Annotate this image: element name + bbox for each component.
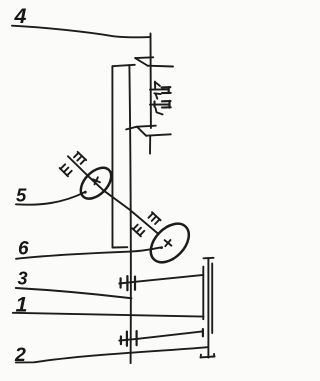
disc A center cross stroke 2 (95, 177, 98, 184)
frame column right edge merged with vertical shaft II (129, 65, 130, 363)
clutch comb E upper tooth 3 (81, 159, 86, 164)
cone pulley B1 diagonal (135, 58, 147, 65)
disc B center cross stroke 1 (165, 240, 172, 246)
gear tick A on shaft I (154, 82, 156, 90)
cone pulley B1 top line (135, 56, 153, 59)
gear tick on line 2 (153, 101, 155, 106)
clutch comb E upper tooth 2 (77, 156, 82, 161)
svg-text:3: 3 (18, 268, 28, 288)
lead screw top cap (204, 257, 214, 260)
svg-text:5: 5 (16, 185, 27, 206)
leader line 1 (13, 313, 204, 317)
lead screw bottom cap (201, 356, 215, 359)
bevel pair 1 bar b (126, 276, 128, 290)
lead screw bottom cap left serif (200, 355, 202, 358)
leader 6 end dot (160, 246, 163, 249)
svg-text:4: 4 (14, 4, 27, 28)
clutch comb F upper (disc B) spine (152, 212, 161, 220)
gear I-bar 1 bottom cap (162, 92, 171, 94)
leader 5 end dot (84, 191, 87, 194)
clutch comb F lower tooth 2 (137, 228, 142, 233)
gear I-bar 2 top cap (162, 100, 171, 102)
clutch comb E upper tooth 1 (74, 153, 79, 158)
cone pulley B1 bottom line (147, 65, 173, 68)
nut left bar (202, 267, 204, 320)
clutch comb E upper (disc A) spine (78, 152, 87, 160)
gear I-bar 2 stem (168, 101, 170, 108)
clutch comb E lower tooth 3 (67, 171, 72, 176)
clutch comb F lower (disc B) spine (132, 228, 141, 236)
friction disc B (143, 216, 196, 269)
frame column top edge (112, 65, 134, 66)
gear I-bar 1 top cap (162, 86, 171, 88)
lead screw bottom cap right serif (213, 354, 215, 357)
leader line 4 (12, 26, 150, 38)
disc A center cross stroke 1 (93, 179, 100, 182)
cone pulley B2 bottom line (146, 134, 171, 135)
nut right bar (211, 264, 213, 334)
vertical shaft I stub below cone (149, 136, 151, 153)
bevel pair 1 horizontal shaft (119, 275, 203, 284)
gear tick B stroke (156, 94, 158, 99)
leader line 5 (16, 192, 86, 205)
cone pulley B2 diagonal (137, 127, 146, 136)
bevel pair 2 bar a (120, 337, 122, 345)
clutch comb F upper tooth 2 (152, 216, 157, 221)
clutch comb F lower tooth 3 (140, 231, 145, 236)
clutch comb E lower tooth 2 (64, 168, 69, 173)
cone pulley B2 top line with frame link (126, 126, 156, 130)
gear I-bar 1 stem (168, 87, 170, 93)
bevel pair 1 bar a (119, 278, 121, 287)
clutch comb E lower tooth 1 (61, 164, 66, 169)
bevel pair 2 horizontal shaft (119, 331, 202, 340)
gear line 2 (150, 104, 169, 106)
clutch comb E lower (disc A) spine (60, 168, 68, 176)
bevel pair 2 right tick (202, 329, 204, 336)
leader line 6 (16, 247, 162, 259)
vertical shaft I (upper) (150, 34, 152, 129)
leader line 2 (16, 347, 208, 362)
bevel pair 1 bar c (134, 277, 136, 290)
gear line 1 (150, 88, 169, 90)
gear tick B top bar (154, 92, 160, 95)
gear tick A hook (155, 82, 160, 86)
gear tick C (155, 108, 162, 115)
clutch comb F upper tooth 3 (155, 219, 160, 224)
lead screw shaft (207, 258, 209, 357)
bevel pair 2 bar b (126, 332, 128, 346)
diagonal shaft III (68, 156, 158, 233)
disc B center cross stroke 2 (165, 240, 170, 246)
frame column left edge (111, 66, 113, 247)
clutch comb F lower tooth 1 (133, 225, 138, 230)
friction disc A (75, 162, 117, 204)
leader line 3 (16, 288, 132, 298)
svg-text:6: 6 (18, 239, 29, 260)
frame column bottom edge (113, 246, 128, 248)
clutch comb F upper tooth 1 (149, 213, 154, 218)
gear I-bar 2 bottom cap (162, 106, 171, 108)
bevel pair 2 bar c (136, 331, 138, 345)
